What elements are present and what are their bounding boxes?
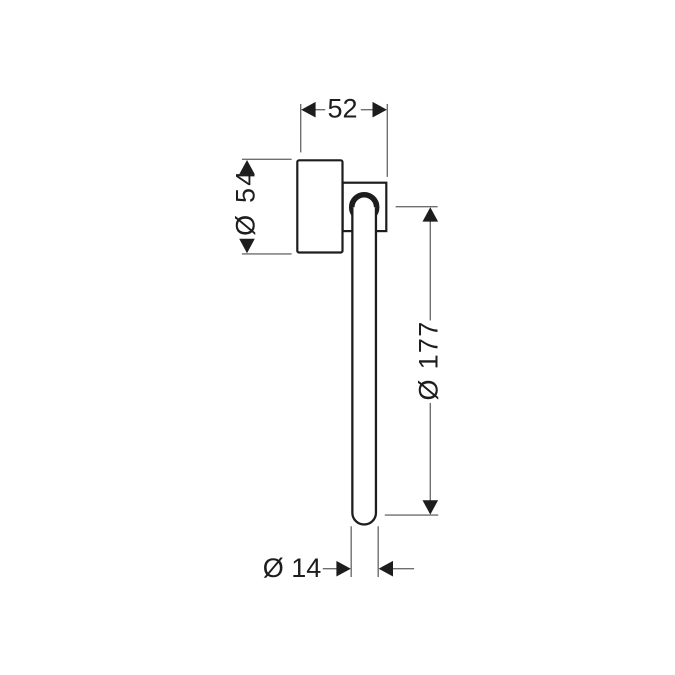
- ring tube white fill: [352, 207, 376, 524]
- dim 52: left stub: [315, 109, 325, 111]
- dim 52: right extension line: [386, 104, 388, 177]
- dim 52: right stub: [361, 109, 373, 111]
- svg-text:Ø 14: Ø 14: [263, 553, 322, 583]
- dim O14: left extension line: [350, 526, 352, 577]
- dim O14: right extension line: [377, 526, 379, 577]
- dim O177: upper line segment: [429, 221, 431, 321]
- dim O177: top arrow: [423, 207, 439, 221]
- svg-text:Ø 54: Ø 54: [231, 169, 261, 236]
- dim O54: bottom arrow: [239, 239, 255, 253]
- dim O14: right arrow: [379, 561, 393, 577]
- dim 52: right arrow: [373, 102, 387, 118]
- svg-text:52: 52: [327, 93, 357, 123]
- holder square plate: [343, 183, 387, 231]
- svg-text:Ø 177: Ø 177: [414, 320, 444, 400]
- dim 52: left extension line: [300, 104, 302, 152]
- dim O14: right stub: [393, 568, 414, 570]
- ring tube outline: [352, 207, 376, 524]
- dim 52: left arrow: [301, 102, 315, 118]
- dim O14: left arrow: [336, 561, 350, 577]
- wall plate: [297, 160, 342, 252]
- dim O14: left stub: [323, 568, 337, 570]
- dim O177: bottom arrow: [423, 500, 439, 514]
- tube cross-section circle (thick): [352, 195, 377, 220]
- dim O54: top extension line: [242, 158, 292, 160]
- dim O54: top arrow: [239, 160, 255, 174]
- dim O177: lower line segment: [429, 403, 431, 501]
- dim O177: bottom extension line: [385, 514, 438, 516]
- dim O177: top extension line: [396, 206, 438, 208]
- dim O54: bottom extension line: [242, 253, 292, 255]
